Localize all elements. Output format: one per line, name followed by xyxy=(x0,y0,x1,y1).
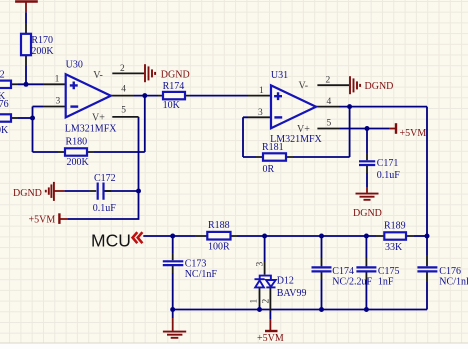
svg-text:+5VM: +5VM xyxy=(400,128,427,139)
svg-text:0R: 0R xyxy=(263,164,275,175)
svg-text:+5VM: +5VM xyxy=(257,333,284,344)
svg-text:200K: 200K xyxy=(67,157,90,168)
svg-text:DGND: DGND xyxy=(353,208,382,219)
svg-text:V-: V- xyxy=(299,81,309,92)
svg-text:C172: C172 xyxy=(94,173,116,184)
svg-text:R180: R180 xyxy=(66,137,88,148)
svg-text:4: 4 xyxy=(327,97,332,107)
svg-text:1nF: 1nF xyxy=(378,276,394,287)
svg-text:3: 3 xyxy=(56,97,61,107)
svg-text:R174: R174 xyxy=(163,81,185,92)
svg-text:100R: 100R xyxy=(208,242,230,253)
svg-text:R172: R172 xyxy=(0,70,5,81)
svg-text:C175: C175 xyxy=(378,266,400,277)
svg-text:5: 5 xyxy=(121,106,126,116)
svg-text:U31: U31 xyxy=(271,70,288,81)
svg-text:R176: R176 xyxy=(0,99,9,110)
svg-text:33K: 33K xyxy=(385,242,403,253)
svg-text:MCU: MCU xyxy=(91,230,131,250)
svg-text:DGND: DGND xyxy=(161,69,190,80)
svg-text:2: 2 xyxy=(120,64,125,74)
svg-text:V+: V+ xyxy=(297,124,310,135)
svg-text:200K: 200K xyxy=(31,46,54,57)
svg-text:3: 3 xyxy=(256,262,266,267)
svg-text:0.1uF: 0.1uF xyxy=(93,203,117,214)
svg-text:C171: C171 xyxy=(377,158,399,169)
svg-text:C174: C174 xyxy=(332,266,354,277)
svg-text:D12: D12 xyxy=(277,276,294,287)
svg-text:NC/2.2uF: NC/2.2uF xyxy=(332,276,372,287)
svg-text:R189: R189 xyxy=(384,221,406,232)
svg-text:V+: V+ xyxy=(92,112,105,123)
svg-text:DGND: DGND xyxy=(365,81,394,92)
svg-text:4: 4 xyxy=(121,85,126,95)
svg-text:200K: 200K xyxy=(0,125,9,136)
svg-text:1: 1 xyxy=(250,299,260,304)
svg-text:10K: 10K xyxy=(163,100,181,111)
svg-text:R188: R188 xyxy=(208,220,230,231)
svg-text:1: 1 xyxy=(259,86,264,96)
svg-text:+5VM: +5VM xyxy=(29,214,56,225)
svg-text:0.1uF: 0.1uF xyxy=(377,170,401,181)
svg-text:NC/1nF: NC/1nF xyxy=(439,276,468,287)
svg-text:NC/1nF: NC/1nF xyxy=(185,269,218,280)
svg-text:5: 5 xyxy=(327,118,332,128)
svg-text:2: 2 xyxy=(261,299,271,304)
svg-text:2: 2 xyxy=(326,76,331,86)
svg-text:BAV99: BAV99 xyxy=(277,288,307,299)
svg-text:R181: R181 xyxy=(262,142,284,153)
svg-text:LM321MFX: LM321MFX xyxy=(65,123,117,134)
svg-text:DGND: DGND xyxy=(13,188,42,199)
svg-text:3: 3 xyxy=(258,108,263,118)
svg-text:U30: U30 xyxy=(66,59,83,70)
svg-text:1: 1 xyxy=(55,75,60,85)
svg-text:V-: V- xyxy=(93,70,103,81)
svg-text:C176: C176 xyxy=(439,266,461,277)
svg-text:C173: C173 xyxy=(185,259,207,270)
svg-text:R170: R170 xyxy=(31,35,53,46)
